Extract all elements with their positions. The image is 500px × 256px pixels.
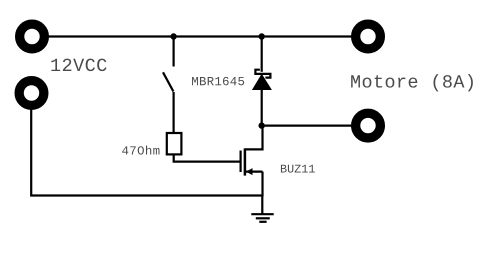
- wire ground stem: [261, 196, 263, 214]
- transistor Q1 source lead with arrow: [245, 171, 263, 173]
- wire resistor bottom to gate: [174, 155, 241, 162]
- node switch-top junction dot: [170, 33, 176, 39]
- terminal P3 (motor +, top-right ring): [356, 24, 381, 49]
- node diode-top junction dot: [259, 33, 265, 39]
- terminal P2 (input return, lower-left ring): [19, 81, 44, 106]
- label 47Ohm: [122, 146, 159, 155]
- wire P2 return (down and across bottom): [31, 109, 262, 196]
- resistor R1 body: [167, 133, 182, 154]
- wire source to ground rail: [261, 172, 263, 197]
- wire switch upper lead: [173, 37, 175, 67]
- diode D1 lower lead wire: [261, 90, 263, 126]
- transistor Q1 channel bar: [244, 148, 247, 175]
- transistor Q1 gate bar: [240, 151, 242, 173]
- terminal P4 (motor -, lower-right ring): [356, 113, 381, 138]
- wire drain down-lead: [245, 126, 263, 150]
- ground symbol: [251, 213, 273, 215]
- label 12VCC: [51, 59, 106, 72]
- diode D1 MBR1645 schottky cathode bar: [255, 70, 270, 78]
- label BUZ11: [281, 165, 315, 173]
- terminal P1 (+12V input, top-left ring): [20, 24, 45, 49]
- wire top rail from P1 to P3: [48, 35, 352, 37]
- wire switch lower lead to resistor: [173, 92, 175, 133]
- node drain junction dot: [259, 122, 265, 128]
- label MBR1645: [192, 77, 244, 85]
- diode D1 upper lead wire: [261, 37, 263, 72]
- label Motore (8A): [351, 74, 473, 91]
- diode D1 triangle (anode, pointing up): [253, 75, 271, 90]
- switch S1 blade: [163, 72, 173, 91]
- wire drain node to P4: [262, 124, 352, 126]
